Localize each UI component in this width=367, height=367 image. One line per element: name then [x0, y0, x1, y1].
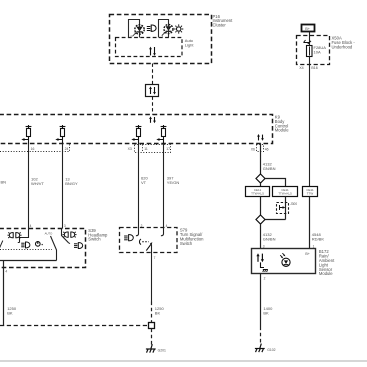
- svg-text:BN: BN: [1, 180, 7, 185]
- svg-text:16: 16: [31, 147, 35, 151]
- svg-text:Cluster: Cluster: [213, 23, 227, 28]
- svg-text:Switch: Switch: [88, 237, 101, 242]
- svg-text:G102: G102: [267, 348, 275, 352]
- svg-text:WH/VT: WH/VT: [31, 181, 44, 186]
- svg-text:BN/GY: BN/GY: [65, 181, 78, 186]
- svg-text:YE/GN: YE/GN: [167, 180, 180, 185]
- svg-text:GN/BN: GN/BN: [263, 236, 276, 241]
- svg-text:B+: B+: [305, 27, 311, 31]
- svg-text:Module: Module: [275, 128, 289, 133]
- svg-text:X6: X6: [251, 147, 255, 151]
- svg-text:4: 4: [30, 224, 32, 228]
- svg-text:BK: BK: [263, 310, 269, 315]
- svg-text:BK: BK: [155, 311, 161, 316]
- svg-text:Switch: Switch: [180, 241, 193, 246]
- svg-text:7: 7: [154, 256, 156, 260]
- svg-text:RD/BK: RD/BK: [312, 236, 325, 241]
- svg-text:10A: 10A: [314, 50, 321, 55]
- svg-text:B16: B16: [311, 66, 317, 70]
- svg-text:J300: J300: [290, 202, 297, 206]
- svg-text:3: 3: [64, 224, 66, 228]
- svg-text:1: 1: [313, 244, 315, 248]
- svg-text:4: 4: [130, 34, 132, 38]
- svg-text:VT: VT: [141, 180, 147, 185]
- svg-text:B+: B+: [305, 252, 310, 256]
- svg-text:2: 2: [264, 276, 266, 280]
- svg-text:17: 17: [166, 147, 170, 151]
- svg-text:TTW: TTW: [307, 192, 314, 196]
- svg-text:Module: Module: [319, 271, 333, 276]
- svg-text:TTW+KL5: TTW+KL5: [278, 192, 292, 196]
- svg-text:24: 24: [65, 147, 69, 151]
- svg-text:BK: BK: [7, 311, 13, 316]
- svg-text:G201: G201: [158, 348, 166, 352]
- svg-text:AUTO: AUTO: [45, 231, 54, 235]
- svg-text:4: 4: [166, 224, 168, 228]
- svg-text:46: 46: [265, 147, 269, 151]
- svg-text:X3: X3: [128, 147, 132, 151]
- svg-text:X4: X4: [299, 66, 303, 70]
- svg-text:TTW-KL5: TTW-KL5: [251, 192, 264, 196]
- svg-text:Underhood: Underhood: [332, 45, 353, 50]
- svg-text:Light: Light: [185, 43, 195, 48]
- svg-text:GN/BN: GN/BN: [263, 166, 276, 171]
- svg-text:4: 4: [5, 270, 7, 274]
- svg-text:11: 11: [144, 147, 148, 151]
- svg-text:2: 2: [141, 224, 143, 228]
